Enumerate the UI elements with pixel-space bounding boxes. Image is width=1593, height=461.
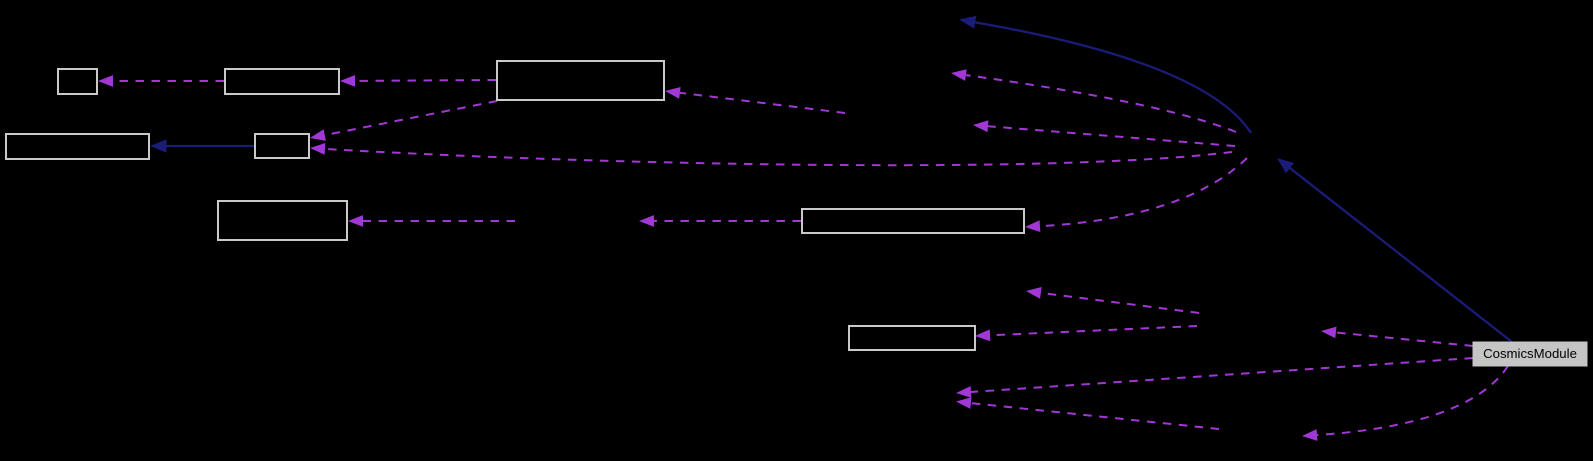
edge CosmicsModule to node N5 (971, 358, 1473, 392)
edge hub to G (1040, 158, 1247, 226)
node CosmicsModule (1473, 342, 1587, 366)
edge E to D (325, 101, 497, 135)
edge node NE2 to E (680, 93, 845, 113)
edge CosmicsModule to node N4 (1317, 366, 1508, 435)
edge hub to D (325, 149, 1232, 165)
edge hub to node NE1 (966, 75, 1236, 132)
edge node N4 to node N5 (971, 403, 1219, 429)
svg-text:CosmicsModule: CosmicsModule (1483, 346, 1577, 361)
box F (218, 201, 347, 240)
edge node N1 to F (363, 220, 515, 222)
edge node N3 to node N2 (1041, 293, 1199, 313)
edge E to B (355, 79, 496, 82)
box A (58, 69, 97, 94)
edge B to A (113, 80, 224, 82)
edge G to node N1 (654, 220, 801, 222)
edge hub to node NE2 (988, 126, 1235, 146)
box C (6, 134, 149, 159)
edge node N3 to H (990, 326, 1197, 335)
edge D to C (inheritance) (165, 145, 254, 147)
box H (849, 326, 975, 350)
box E (497, 61, 664, 100)
box B (225, 69, 339, 94)
box G (802, 209, 1024, 233)
edge CosmicsModule to hub (inheritance) (1289, 167, 1512, 342)
edge hub to node N6 (inheritance) (974, 22, 1251, 133)
box D (255, 134, 309, 158)
edge CosmicsModule to node N3 (1336, 333, 1473, 347)
